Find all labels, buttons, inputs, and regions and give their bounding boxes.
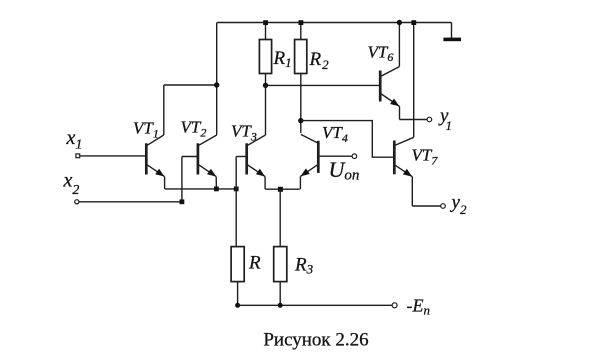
node rail-R1 [263,20,268,25]
transistor VT1 [146,135,164,189]
wire VT1 collector branch [164,84,217,86]
resistor R2 [295,23,307,134]
svg-text:VT7: VT7 [412,146,439,168]
wire VT6 collector vertical [398,23,400,67]
resistor R [231,247,244,306]
svg-text:VT1: VT1 [133,119,159,141]
terminal Uop [352,154,357,159]
svg-text:x2: x2 [63,170,80,199]
node R3 bottom [278,303,283,308]
svg-text:R3: R3 [294,255,314,277]
node rail-R2 [299,20,304,25]
wire VT3 collector vertical [265,85,267,135]
wire VT6 base branch [266,84,380,86]
node rail-VT7 [411,20,416,25]
svg-text:y2: y2 [450,192,467,217]
ground [443,23,461,42]
node R bottom [235,303,240,308]
input terminal x2 [75,200,182,204]
transistor VT2 [182,135,217,202]
svg-text:x1: x1 [66,127,83,153]
terminal y2 [441,204,446,209]
svg-text:VT2: VT2 [181,118,207,140]
node junction R2 / VT7 base [298,118,303,123]
node corner x2/VT2 base [180,199,185,204]
svg-text:Рисунок 2.26: Рисунок 2.26 [263,330,368,351]
resistor R1 [259,23,271,86]
wire VT1 collector vertical [163,85,165,135]
input terminal x1 [76,154,145,158]
transistor VT4 (mirrored) [300,134,352,189]
node rail-VT6 [397,20,402,25]
terminal y1 [427,117,432,122]
wire emitter bus VT3-VT4 [265,188,299,190]
svg-text:VT6: VT6 [368,43,394,65]
svg-text:-En: -En [407,296,431,318]
svg-text:y1: y1 [438,106,452,134]
wire bottom supply [238,304,392,306]
svg-text:R2: R2 [309,49,330,72]
transistor VT7 [394,137,413,206]
terminal -En [392,303,397,308]
svg-text:VT3: VT3 [231,122,257,144]
node junction VT1/VT2 collectors [214,82,219,87]
wire VT3 base vertical to R [235,157,237,247]
svg-text:R1: R1 [273,48,292,70]
node junction R1 bottom [263,83,268,88]
svg-text:R: R [248,253,261,274]
wire top supply rail [217,22,452,24]
node common emitter VT3/VT4 [278,187,283,192]
wire emitter bus VT1-VT2 [165,188,236,190]
transistor VT3 [236,135,265,189]
transistor VT6 [380,67,399,120]
output y1 wire [400,119,428,121]
wire VT2 collector vertical [216,23,218,136]
wire VT7 base horizontal [301,121,393,158]
svg-text:VT4: VT4 [322,123,348,145]
svg-text:Uоп: Uоп [329,157,360,184]
output y2 wire [412,205,440,207]
wire VT7 collector vertical [413,23,415,138]
resistor R3 [274,189,287,305]
node VT2 emitter junction [214,187,219,192]
node emitter bus / VT3 base line [234,187,239,192]
